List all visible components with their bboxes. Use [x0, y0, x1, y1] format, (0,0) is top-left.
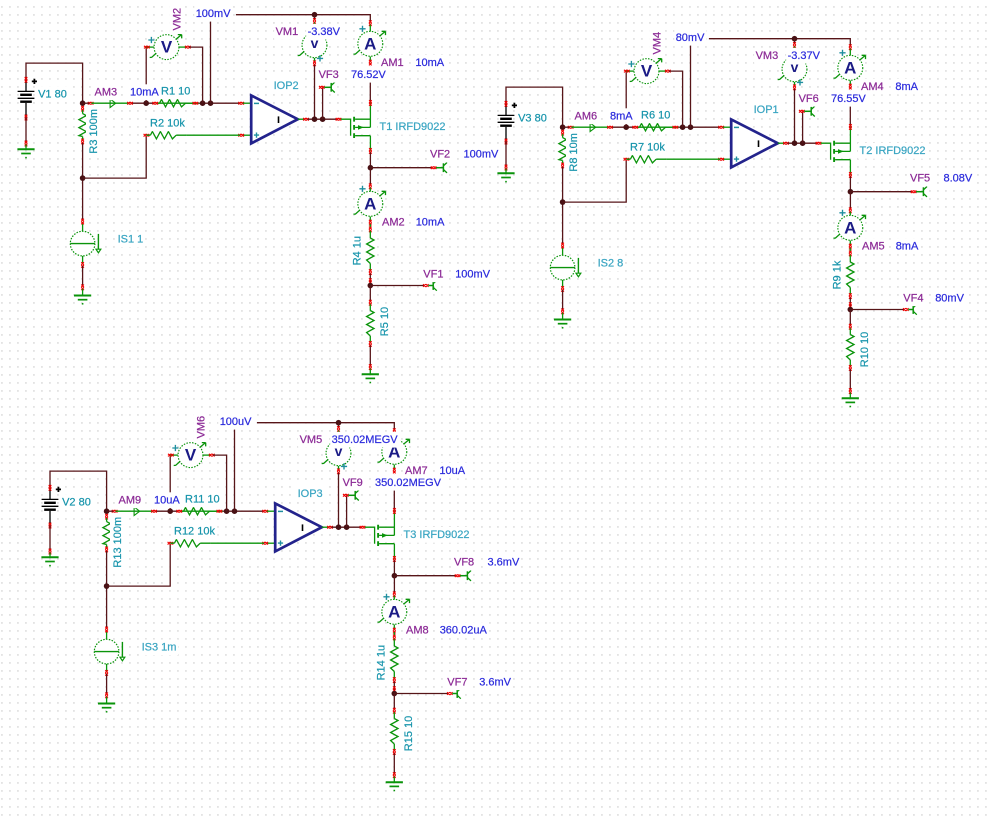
svg-text:AM8: AM8 [406, 624, 429, 636]
wire VM3 to op-amp output node [794, 89, 796, 143]
svg-text:AM5: AM5 [862, 240, 885, 252]
wire to terminal VF8 [394, 575, 455, 577]
wire R5 to ground [393, 753, 395, 774]
value 350.02MEGV [330, 432, 400, 448]
resistor R14 [391, 635, 398, 683]
label IOP3 [296, 486, 324, 502]
svg-text:R5 10: R5 10 [379, 307, 391, 336]
ground under current source [74, 296, 91, 304]
terminal VF2 [431, 163, 447, 173]
wire R4 to VF1 junction [369, 274, 371, 284]
wire IS to ground [82, 266, 84, 286]
svg-text:AM3: AM3 [95, 86, 118, 98]
ammeter arrow AM3 [110, 99, 116, 108]
svg-text:-3.37V: -3.37V [788, 50, 821, 62]
label R14 1u [374, 643, 390, 682]
label AM1 [380, 55, 406, 71]
op-amp IOP3 [262, 503, 332, 551]
resistor R2 [144, 132, 187, 139]
current source IS3 [94, 627, 125, 676]
label AM6 [573, 108, 599, 124]
label VF2 [429, 147, 452, 163]
wire to terminal VF9 [346, 495, 348, 527]
junction R2 tee [80, 175, 86, 181]
junction net-label [224, 508, 230, 514]
svg-text:100uV: 100uV [220, 416, 252, 428]
wire IS to ground [562, 290, 564, 310]
junction VF5 [848, 189, 854, 195]
terminal VF7 [447, 688, 461, 698]
value 8mA [894, 79, 920, 95]
svg-text:R10 10: R10 10 [859, 332, 871, 367]
junction to VM2 left [623, 124, 629, 130]
junction above VM1 [312, 12, 318, 18]
label AM2 [381, 214, 407, 230]
terminal VF1 [423, 280, 437, 290]
svg-text:8mA: 8mA [610, 110, 633, 122]
wire bus to lower junction [106, 551, 108, 629]
svg-text:VM1: VM1 [276, 26, 299, 38]
svg-text:R13 100m: R13 100m [112, 517, 124, 568]
op-amp IOP1 [718, 119, 788, 167]
wire battery V2 top to node [50, 471, 107, 511]
value -3.38V [306, 24, 342, 40]
wire input bus (green) [83, 102, 90, 104]
label VM6 [193, 414, 209, 440]
label VM3 [754, 48, 780, 64]
net label wire 80mV vertical [690, 42, 692, 128]
svg-text:IS1 1: IS1 1 [118, 233, 144, 245]
wire to resistor R2 [83, 137, 147, 179]
svg-text:VF8: VF8 [454, 557, 474, 569]
resistor R10 [847, 324, 854, 371]
value 3.6mV [486, 555, 521, 571]
label V3 80 [517, 110, 549, 126]
value 10uA [438, 463, 467, 479]
label VM5 [298, 432, 324, 448]
wire to resistor R15 [393, 694, 395, 710]
value 10mA [414, 214, 446, 230]
wire to op-amp inverting input [237, 510, 264, 512]
label AM8 [405, 622, 431, 638]
net label wire 100uV horizontal [257, 423, 394, 431]
svg-text:IS2 8: IS2 8 [598, 257, 624, 269]
wire to terminal VF6 [802, 111, 804, 143]
svg-text:R15 10: R15 10 [403, 716, 415, 751]
ground under current source [98, 704, 115, 712]
value 100mV [462, 147, 501, 163]
net label wire 100uV vertical [234, 426, 236, 512]
junction above VM1 [336, 420, 342, 426]
wire battery negative to ground [25, 118, 27, 144]
wire to terminal VF1 [370, 285, 424, 287]
wire VM2 left lead down [625, 71, 627, 127]
junction to VM2 left [167, 508, 173, 514]
value 10uA [153, 492, 182, 508]
label VM4 [649, 30, 665, 56]
junction VF4 [848, 307, 854, 313]
wire VM5 to op-amp output node [338, 473, 340, 527]
svg-text:360.02uA: 360.02uA [440, 624, 488, 636]
svg-text:VF5: VF5 [910, 173, 930, 185]
label T1 IRFD9022 [378, 119, 447, 135]
svg-text:3.6mV: 3.6mV [488, 557, 520, 569]
ammeter AM4 [834, 44, 866, 89]
resistor R11 [177, 508, 223, 515]
net label wire 80mV horizontal [709, 39, 850, 47]
svg-text:76.55V: 76.55V [831, 93, 867, 105]
battery V3 [498, 101, 517, 144]
value 360.02uA [438, 622, 489, 638]
transistor T1 IRFD9022 [336, 100, 372, 154]
wire down to voltmeter VM5 [338, 423, 340, 428]
wire IS to ground [106, 674, 108, 694]
wire mosfet source down [849, 176, 851, 191]
label AM5 [861, 238, 887, 254]
voltmeter VM1 [298, 33, 330, 66]
wire input bus (green) [107, 510, 114, 512]
op-amp IOP2 [238, 95, 308, 143]
svg-text:R8 10m: R8 10m [568, 133, 580, 172]
wire battery V1 top to node [26, 63, 83, 103]
wire R2 to op-amp non-inverting input [186, 134, 240, 136]
wire to resistor R5 [369, 286, 371, 302]
svg-text:VM2: VM2 [171, 8, 183, 31]
svg-text:A: A [844, 218, 856, 237]
resistor R4 [367, 227, 374, 275]
value 10mA [129, 84, 161, 100]
label R5 10 [377, 306, 393, 338]
resistor R13 (bus shunt) [103, 514, 110, 552]
svg-text:VM6: VM6 [195, 416, 207, 439]
net label 100uV [218, 414, 254, 430]
svg-text:V: V [641, 62, 653, 81]
wire down to voltmeter VM1 [314, 15, 316, 20]
wire VM2 left lead down [169, 455, 171, 511]
resistor R1 [153, 100, 199, 107]
value 76.55V [830, 91, 869, 107]
label R15 10 [401, 714, 417, 753]
label IS2 8 [596, 255, 625, 271]
net label wire 100mV horizontal [236, 15, 370, 23]
svg-text:VF6: VF6 [799, 93, 819, 105]
wire VM1 to op-amp output node [314, 65, 316, 119]
wire op-amp output [788, 142, 819, 144]
svg-text:IS3 1m: IS3 1m [142, 641, 177, 653]
svg-text:8.08V: 8.08V [944, 173, 973, 185]
svg-text:100mV: 100mV [455, 268, 491, 280]
terminal VF9 [343, 490, 359, 500]
resistor R8 (bus shunt) [559, 130, 566, 168]
wire R2 to op-amp non-inverting input [666, 158, 720, 160]
junction VF1 [368, 283, 374, 289]
label R7 10k [629, 139, 667, 155]
value -3.37V [786, 48, 822, 64]
svg-text:80mV: 80mV [676, 32, 705, 44]
svg-text:V1 80: V1 80 [38, 88, 67, 100]
wire to ammeter AM5 [849, 192, 851, 210]
ground under battery [497, 173, 514, 181]
resistor R6 [633, 124, 679, 131]
ground under battery [41, 557, 58, 565]
label IOP1 [752, 102, 780, 118]
svg-text:VF2: VF2 [430, 149, 450, 161]
label VF5 [909, 171, 932, 187]
svg-text:10mA: 10mA [416, 216, 445, 228]
svg-text:R11 10: R11 10 [185, 493, 220, 505]
net label wire 100mV vertical [210, 18, 212, 104]
label T3 IRFD9022 [402, 527, 471, 543]
svg-text:VF9: VF9 [343, 477, 363, 489]
svg-text:T1 IRFD9022: T1 IRFD9022 [380, 121, 446, 133]
svg-text:8mA: 8mA [895, 81, 918, 93]
svg-text:R2 10k: R2 10k [150, 117, 185, 129]
net label 80mV [674, 30, 706, 46]
ground under battery [17, 149, 34, 157]
svg-text:R4 1u: R4 1u [352, 236, 364, 265]
svg-text:A: A [364, 194, 376, 213]
value 10mA [414, 55, 446, 71]
wire to op-amp inverting input [213, 102, 240, 104]
label R2 10k [149, 115, 187, 131]
svg-text:R9 1k: R9 1k [832, 260, 844, 289]
junction R2 tee [104, 583, 110, 589]
svg-text:-3.38V: -3.38V [308, 26, 341, 38]
label AM4 [860, 79, 886, 95]
junction op-amp output / VF9 [344, 524, 350, 530]
svg-text:V3 80: V3 80 [518, 112, 547, 124]
terminal VF5 [911, 187, 927, 197]
svg-text:10mA: 10mA [130, 86, 159, 98]
svg-text:A: A [364, 34, 376, 53]
svg-text:R6 10: R6 10 [641, 109, 670, 121]
junction VF7 [392, 691, 398, 697]
svg-text:VF4: VF4 [903, 292, 923, 304]
svg-text:V2 80: V2 80 [62, 496, 91, 508]
svg-text:V: V [161, 38, 173, 57]
wire R5 to ground [849, 369, 851, 390]
ground under R5 [842, 398, 859, 406]
wire op-amp output [308, 118, 339, 120]
junction op-amp output / VF6 [800, 140, 806, 146]
wire to ammeter AM8 [393, 576, 395, 594]
resistor R3 (bus shunt) [79, 106, 86, 144]
svg-text:80mV: 80mV [935, 292, 964, 304]
ground under current source [554, 320, 571, 328]
label VF9 [341, 475, 364, 491]
svg-text:8mA: 8mA [896, 240, 919, 252]
wire to terminal VF2 [370, 167, 431, 169]
label T2 IRFD9022 [858, 143, 927, 159]
svg-text:R7 10k: R7 10k [630, 141, 665, 153]
svg-text:R1 10: R1 10 [161, 85, 190, 97]
svg-text:AM1: AM1 [381, 57, 404, 69]
value 80mV [934, 290, 966, 306]
current source IS1 [70, 219, 101, 268]
wire battery V3 top to node [506, 87, 563, 127]
wire down to voltmeter VM3 [794, 39, 796, 44]
label VF8 [453, 555, 476, 571]
node A (input bus junction) [80, 100, 86, 106]
resistor R15 [391, 708, 398, 755]
wire to resistor R7 [563, 161, 627, 203]
label VM1 [274, 24, 300, 40]
junction op-amp output / VF3 [320, 116, 326, 122]
net label 100mV [194, 6, 233, 22]
voltmeter VM5 [322, 441, 354, 474]
wire to terminal VF5 [850, 191, 911, 193]
svg-text:10uA: 10uA [439, 465, 465, 477]
label R6 10 [640, 107, 672, 123]
svg-text:IOP2: IOP2 [274, 80, 299, 92]
value 3.6mV [478, 674, 513, 690]
label R11 10 [184, 491, 222, 507]
svg-text:AM9: AM9 [119, 494, 142, 506]
wire bus to lower junction [82, 143, 84, 221]
label VF1 [422, 266, 445, 282]
battery V2 [42, 485, 61, 528]
value 76.52V [350, 67, 389, 83]
svg-text:AM7: AM7 [405, 465, 428, 477]
svg-text:VM4: VM4 [651, 32, 663, 55]
label V1 80 [37, 86, 69, 102]
wire R5 to ground [369, 345, 371, 366]
ammeter AM8 [378, 592, 410, 637]
label R4 1u [350, 235, 366, 267]
ground under R5 [386, 782, 403, 790]
transistor T2 IRFD9022 [816, 124, 852, 178]
voltmeter VM2 [144, 35, 191, 60]
node A (input bus junction) [560, 124, 566, 130]
wire VM2 right to bus [669, 71, 683, 127]
ammeter AM7 [378, 428, 410, 473]
label R9 1k [830, 259, 846, 291]
junction op-amp output / VM1 [336, 524, 342, 530]
value 100mV [454, 266, 493, 282]
value 8mA [894, 238, 920, 254]
label R12 10k [173, 523, 218, 539]
wire battery negative to ground [49, 526, 51, 552]
wire R4 to VF1 junction [849, 298, 851, 308]
wire VM2 right to bus [189, 47, 203, 103]
label IS3 1m [140, 639, 178, 655]
svg-text:VF3: VF3 [319, 69, 339, 81]
label R13 100m [110, 515, 126, 569]
terminal VF3 [319, 82, 335, 92]
svg-text:VF1: VF1 [423, 268, 443, 280]
label VF7 [446, 674, 469, 690]
svg-text:AM6: AM6 [575, 110, 598, 122]
label R8 10m [566, 131, 582, 173]
wire VM2 left lead down [145, 47, 147, 103]
label IS1 1 [116, 231, 145, 247]
wire to terminal VF4 [850, 309, 904, 311]
svg-text:10uA: 10uA [154, 494, 180, 506]
junction net-label [680, 124, 686, 130]
resistor R9 [847, 251, 854, 299]
ammeter AM5 [834, 208, 866, 253]
svg-text:3.6mV: 3.6mV [479, 676, 511, 688]
wire input bus (green) [563, 126, 570, 128]
wire R2 to op-amp non-inverting input [210, 542, 264, 544]
current source IS2 [550, 243, 581, 292]
wire to resistor R10 [849, 310, 851, 326]
label VM2 [169, 6, 185, 32]
ammeter AM1 [354, 20, 386, 65]
wire AM1 to mosfet drain [369, 67, 371, 103]
node A (input bus junction) [104, 508, 110, 514]
svg-text:VM3: VM3 [756, 50, 779, 62]
label VF6 [797, 91, 820, 107]
junction op-amp output / VM1 [312, 116, 318, 122]
ammeter arrow AM6 [590, 123, 596, 132]
svg-text:350.02MEGV: 350.02MEGV [332, 434, 399, 446]
value 350.02MEGV [374, 475, 444, 491]
battery V1 [18, 77, 37, 120]
svg-text:AM4: AM4 [861, 81, 884, 93]
svg-text:VF7: VF7 [447, 676, 467, 688]
label V2 80 [61, 494, 93, 510]
wire to terminal VF3 [322, 87, 324, 119]
value 8mA [609, 108, 635, 124]
voltmeter VM3 [778, 57, 810, 90]
svg-text:T3 IRFD9022: T3 IRFD9022 [404, 529, 470, 541]
svg-text:A: A [844, 58, 856, 77]
wire mosfet source down [369, 152, 371, 167]
voltmeter VM4 [624, 59, 671, 84]
label AM7 [404, 463, 430, 479]
junction VF8 [392, 573, 398, 579]
wire AM1 to mosfet drain [849, 91, 851, 127]
wire battery negative to ground [505, 142, 507, 168]
terminal VF4 [903, 304, 917, 314]
wire VM2 right to bus [213, 455, 227, 511]
label IOP2 [272, 78, 300, 94]
svg-text:R3 100m: R3 100m [88, 109, 100, 154]
value 8.08V [942, 171, 974, 187]
svg-text:IOP3: IOP3 [298, 488, 323, 500]
svg-text:R12 10k: R12 10k [174, 525, 215, 537]
junction op-amp output / VM1 [792, 140, 798, 146]
transistor T3 IRFD9022 [360, 508, 396, 562]
svg-text:100mV: 100mV [464, 149, 500, 161]
wire to ammeter AM2 [369, 168, 371, 186]
voltmeter VM6 [168, 443, 215, 468]
label R10 10 [857, 330, 873, 369]
wire to resistor R12 [107, 545, 171, 587]
wire to op-amp inverting input [693, 126, 720, 128]
ammeter AM2 [354, 184, 386, 229]
wire bus to lower junction [562, 167, 564, 245]
ammeter arrow AM9 [134, 507, 140, 516]
svg-text:VM5: VM5 [300, 434, 323, 446]
label AM9 [117, 492, 143, 508]
resistor R12 [168, 540, 211, 547]
junction above VM1 [792, 36, 798, 42]
terminal VF6 [799, 106, 815, 116]
junction VF2 [368, 165, 374, 171]
label VF4 [902, 290, 925, 306]
wire R4 to VF1 junction [393, 682, 395, 692]
label R3 100m [86, 107, 102, 155]
junction R2 tee [560, 199, 566, 205]
svg-text:T2 IRFD9022: T2 IRFD9022 [860, 145, 926, 157]
svg-text:10mA: 10mA [415, 57, 444, 69]
svg-text:100mV: 100mV [196, 8, 232, 20]
resistor R7 [624, 156, 667, 163]
resistor R5 [367, 300, 374, 347]
svg-text:AM2: AM2 [382, 216, 405, 228]
